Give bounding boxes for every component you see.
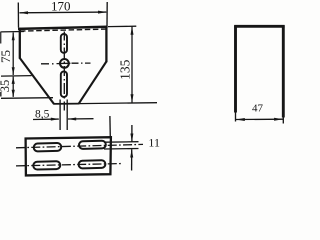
wire dimension 11 upper stem <box>131 125 133 142</box>
node bottom view outline <box>26 137 111 175</box>
wire circle cross bar <box>59 62 71 64</box>
svg-text:35: 35 <box>0 80 12 93</box>
svg-text:75: 75 <box>0 50 13 63</box>
wire dimension 8.5 right segment <box>68 118 94 120</box>
node arrow right 8.5 <box>51 118 60 121</box>
wire dimension 47 line <box>236 118 283 120</box>
node arrow right 47 <box>274 118 283 121</box>
wire extension line bottom for 135 <box>79 102 157 105</box>
wire extension line top for 75 <box>1 31 24 33</box>
node arrow down 135 <box>131 94 134 103</box>
node arrow up 135 <box>131 26 134 35</box>
node channel top edge <box>234 25 284 28</box>
node hole circle <box>60 59 69 68</box>
node slot row2 right <box>79 160 106 168</box>
wire extension line mid for 35 <box>1 75 32 78</box>
node arrow down 75 <box>12 67 15 75</box>
wire extension line top for 135 <box>108 25 136 27</box>
node plate left edge <box>19 28 21 59</box>
wire dimension 35 line <box>12 77 14 97</box>
wire projection line to bottom view <box>109 116 111 138</box>
wire dimension 135 line <box>131 27 133 103</box>
node plate bottom edge <box>53 103 79 105</box>
svg-text:170: 170 <box>51 0 71 13</box>
node plate right diagonal <box>79 62 107 104</box>
svg-text:135: 135 <box>117 59 132 80</box>
wire horizontal centerline <box>41 62 91 65</box>
node slot upper <box>61 34 67 53</box>
node arrow left 47 <box>236 118 245 121</box>
wire extension line slot left for 8.5 <box>59 100 61 131</box>
node scan artifact upper <box>0 32 1 44</box>
wire dimension 75 line <box>12 33 14 76</box>
node arrow down 11 <box>130 134 133 143</box>
wire slot edge extension top for 11 <box>104 141 139 144</box>
wire slot edge extension bottom for 11 <box>104 148 139 151</box>
node arrow right 170 <box>98 11 107 14</box>
node plate top edge <box>18 27 108 29</box>
wire dimension 170 line <box>20 11 107 14</box>
node slot lower <box>61 71 67 97</box>
node plate left diagonal <box>20 58 54 104</box>
node plate right edge <box>105 26 107 62</box>
node arrow up 35 <box>12 76 15 84</box>
wire channel right extension <box>282 117 284 124</box>
svg-text:47: 47 <box>252 103 264 115</box>
wire extension line lower for 35 <box>1 97 53 100</box>
node scan artifact lower <box>0 92 2 97</box>
svg-text:11: 11 <box>148 136 160 150</box>
node channel left flange <box>234 25 237 112</box>
wire bend dashed line <box>20 29 106 31</box>
svg-text:8,5: 8,5 <box>35 108 50 120</box>
node arrow left 8.5 <box>68 118 77 121</box>
wire centerline row1 <box>16 144 143 147</box>
node slot row1 left <box>34 143 62 151</box>
node arrow left 170 <box>19 11 28 14</box>
wire dimension 170 extension line right <box>106 2 108 26</box>
node slot row2 left <box>33 161 60 169</box>
node arrow down 35 <box>12 90 15 98</box>
wire extension line slot right for 8.5 <box>66 100 68 131</box>
wire centerline row2 <box>16 164 123 166</box>
wire dimension 11 lower stem <box>131 149 133 170</box>
node arrow up 75 <box>12 32 15 40</box>
wire vertical centerline <box>63 32 65 111</box>
wire dimension 8.5 left segment <box>33 118 59 120</box>
wire dimension 170 extension line left <box>17 3 19 28</box>
node channel right flange <box>282 25 285 117</box>
node slot row1 right <box>79 141 106 149</box>
wire channel left extension <box>235 112 237 122</box>
node arrow up 11 <box>130 149 133 158</box>
